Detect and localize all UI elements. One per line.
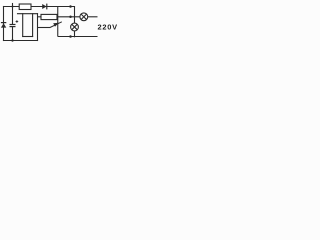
- junction dot on H3: [69, 16, 72, 19]
- vertical bar x57.75: [57, 7, 59, 37]
- wire top H1: [4, 6, 75, 8]
- wire bottom-left H5: [4, 40, 38, 42]
- wiper diagonal with arrow: [50, 22, 62, 28]
- wire H3 middle right: [57, 16, 80, 18]
- wire left V1: [3, 7, 5, 41]
- junction dot bottom cap: [11, 39, 13, 41]
- fuse/resistor box R1 on top wire: [19, 4, 31, 10]
- wire vertical x74.5 upper: [74, 7, 76, 24]
- wire vertical x12.5 lower (cap to bottom): [12, 27, 14, 41]
- wire H2: [18, 13, 38, 15]
- junction dot on top wire: [69, 5, 72, 8]
- lamp HL1 (top right): [80, 13, 88, 21]
- wire bottom short y36.5: [23, 36, 33, 38]
- wire H4 bottom right: [58, 36, 98, 38]
- wire vertical x37.5: [37, 14, 39, 41]
- wire H3 middle (resistor lead left): [38, 16, 42, 18]
- wire vertical x23: [22, 14, 24, 37]
- capacitor C1 polarity plus: [16, 20, 19, 23]
- svg-text:220V: 220V: [98, 23, 118, 32]
- lamp HL1 right lead: [88, 16, 98, 18]
- diode D1 on top wire (pointing right): [42, 4, 47, 10]
- wire vertical x32.5: [32, 14, 34, 37]
- diode D2 (on left vertical, pointing up): [1, 23, 6, 28]
- resistor R2 box: [41, 14, 57, 19]
- wire vertical x74.5 lower: [74, 31, 76, 37]
- wire stub/vertical x12.5 upper: [12, 4, 14, 25]
- lamp HL2 (lower): [71, 23, 79, 31]
- junction dot on top wire at x12.5: [12, 6, 14, 8]
- capacitor C1 plates: [10, 25, 16, 27]
- wiper wire horizontal y27.6: [38, 27, 51, 29]
- junction dot on H4: [69, 35, 72, 38]
